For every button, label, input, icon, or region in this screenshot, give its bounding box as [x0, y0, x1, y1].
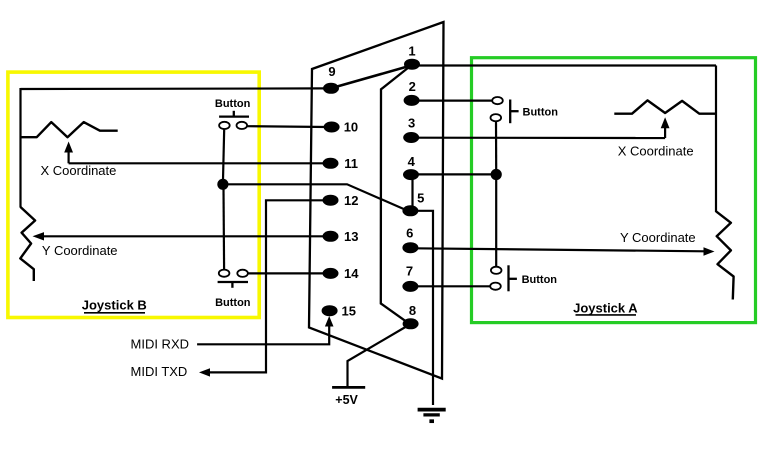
- junction dot B: [217, 179, 228, 190]
- svg-text:Button: Button: [215, 297, 251, 309]
- wire A button chain upper: [495, 121, 497, 170]
- A top button bar: [510, 100, 518, 124]
- wire A button chain lower: [495, 178, 497, 267]
- svg-text:Y Coordinate: Y Coordinate: [42, 243, 118, 258]
- pin 8: [403, 303, 419, 329]
- svg-text:X Coordinate: X Coordinate: [41, 163, 117, 178]
- pin 9: [323, 64, 339, 94]
- svg-text:13: 13: [344, 229, 358, 244]
- pin 7: [402, 263, 418, 292]
- pin 4: [403, 154, 419, 180]
- wire pin8 to +5V: [348, 326, 409, 387]
- wire pin2 to A top button: [414, 99, 493, 101]
- DA-15 connector outline: [309, 22, 444, 379]
- svg-text:14: 14: [344, 266, 359, 281]
- potentiometer A Y (zigzag): [716, 211, 734, 299]
- MIDI RXD arrow (points up at pin15): [325, 316, 334, 327]
- svg-text:Button: Button: [522, 274, 558, 286]
- svg-text:7: 7: [406, 263, 413, 278]
- Joystick B enclosure (yellow box): [8, 72, 259, 317]
- pin 14: [323, 266, 360, 281]
- pin 6: [402, 225, 418, 253]
- svg-text:8: 8: [409, 303, 416, 318]
- A bottom button bar: [509, 265, 517, 291]
- B bottom button bar: [218, 282, 248, 288]
- wire pin6 to A Y wiper: [414, 248, 705, 251]
- wire A right vertical rail: [715, 66, 717, 213]
- wire pin4 to pin5: [411, 175, 413, 211]
- svg-text:Button: Button: [215, 98, 251, 110]
- pin 2: [404, 79, 420, 106]
- wire pin1 to Joystick A top rail: [414, 64, 716, 66]
- wire B top button to pin 10: [247, 125, 327, 128]
- wire pin4 to junction A: [414, 173, 492, 175]
- junction dot A: [491, 169, 502, 180]
- pin 12: [323, 193, 359, 208]
- wire B bottom button to pin 14: [248, 272, 327, 274]
- label Joystick A: [573, 300, 638, 315]
- svg-text:10: 10: [344, 119, 358, 134]
- svg-text:+5V: +5V: [335, 393, 358, 407]
- svg-text:Joystick A: Joystick A: [573, 300, 638, 315]
- pin 1: [404, 43, 420, 69]
- pin 10: [324, 119, 359, 134]
- svg-text:5: 5: [417, 191, 424, 206]
- svg-text:11: 11: [344, 156, 358, 171]
- A bottom button contact lower: [490, 283, 501, 290]
- wire pin13 to B Y wiper: [43, 235, 328, 237]
- +5V supply bar: [332, 386, 365, 389]
- svg-text:9: 9: [328, 64, 335, 79]
- wire pin1 to pin9 (+5V diagonal): [331, 66, 411, 89]
- B top button bar: [219, 111, 249, 117]
- wire B button chain lower: [222, 188, 225, 270]
- pin 3: [403, 115, 419, 143]
- connector inner shell line (pin1 to pin8 bus): [381, 66, 411, 323]
- B Y wiper arrow (points left): [33, 232, 45, 240]
- svg-text:1: 1: [408, 43, 415, 58]
- wire MIDI RXD to pin15: [197, 324, 329, 344]
- Joystick A enclosure (green box): [472, 58, 756, 323]
- svg-text:Button: Button: [523, 106, 559, 118]
- svg-text:6: 6: [406, 225, 413, 240]
- B bottom button contact left: [219, 270, 230, 277]
- A X wiper arrow: [661, 117, 670, 138]
- pin 13: [323, 229, 359, 244]
- label Joystick B: [82, 298, 147, 313]
- svg-text:3: 3: [408, 115, 415, 130]
- pin 11: [323, 156, 359, 171]
- svg-text:2: 2: [409, 79, 416, 94]
- svg-text:X Coordinate: X Coordinate: [618, 144, 694, 159]
- svg-text:12: 12: [344, 193, 358, 208]
- B bottom button contact right: [237, 270, 248, 277]
- B top button contact right: [237, 122, 248, 129]
- wire pin9 to Joystick B top rail: [21, 87, 328, 90]
- A Y wiper arrow (points right): [704, 247, 715, 255]
- potentiometer A X (zigzag): [614, 100, 716, 113]
- potentiometer B X (zigzag): [21, 122, 118, 137]
- pin 5: [402, 191, 424, 217]
- svg-text:15: 15: [342, 304, 356, 319]
- pin 15: [322, 304, 356, 319]
- wire B button chain upper: [223, 129, 224, 180]
- wire pin12 to MIDI TXD: [209, 200, 328, 372]
- wire B X wiper to pin 11: [69, 162, 327, 164]
- B top button contact left: [219, 122, 230, 129]
- potentiometer B Y (zigzag): [20, 207, 35, 281]
- wire Joystick B left vertical rail: [19, 88, 21, 208]
- wire pin5 to ground: [413, 211, 433, 405]
- svg-text:4: 4: [408, 154, 416, 169]
- svg-text:MIDI RXD: MIDI RXD: [131, 336, 190, 351]
- svg-text:Y Coordinate: Y Coordinate: [620, 230, 696, 245]
- wire B junction to pin 5: [223, 184, 406, 210]
- MIDI TXD arrow (points left): [199, 368, 210, 376]
- B X wiper arrow: [64, 142, 73, 164]
- svg-text:MIDI TXD: MIDI TXD: [131, 364, 188, 379]
- A top button contact lower: [491, 114, 502, 121]
- A top button contact upper: [492, 97, 503, 104]
- wire pin7 to A bottom button: [414, 285, 490, 287]
- ground symbol: [418, 410, 446, 422]
- A bottom button contact upper: [491, 267, 502, 274]
- svg-text:Joystick B: Joystick B: [82, 298, 147, 313]
- wire pin3 to A X wiper: [414, 137, 665, 140]
